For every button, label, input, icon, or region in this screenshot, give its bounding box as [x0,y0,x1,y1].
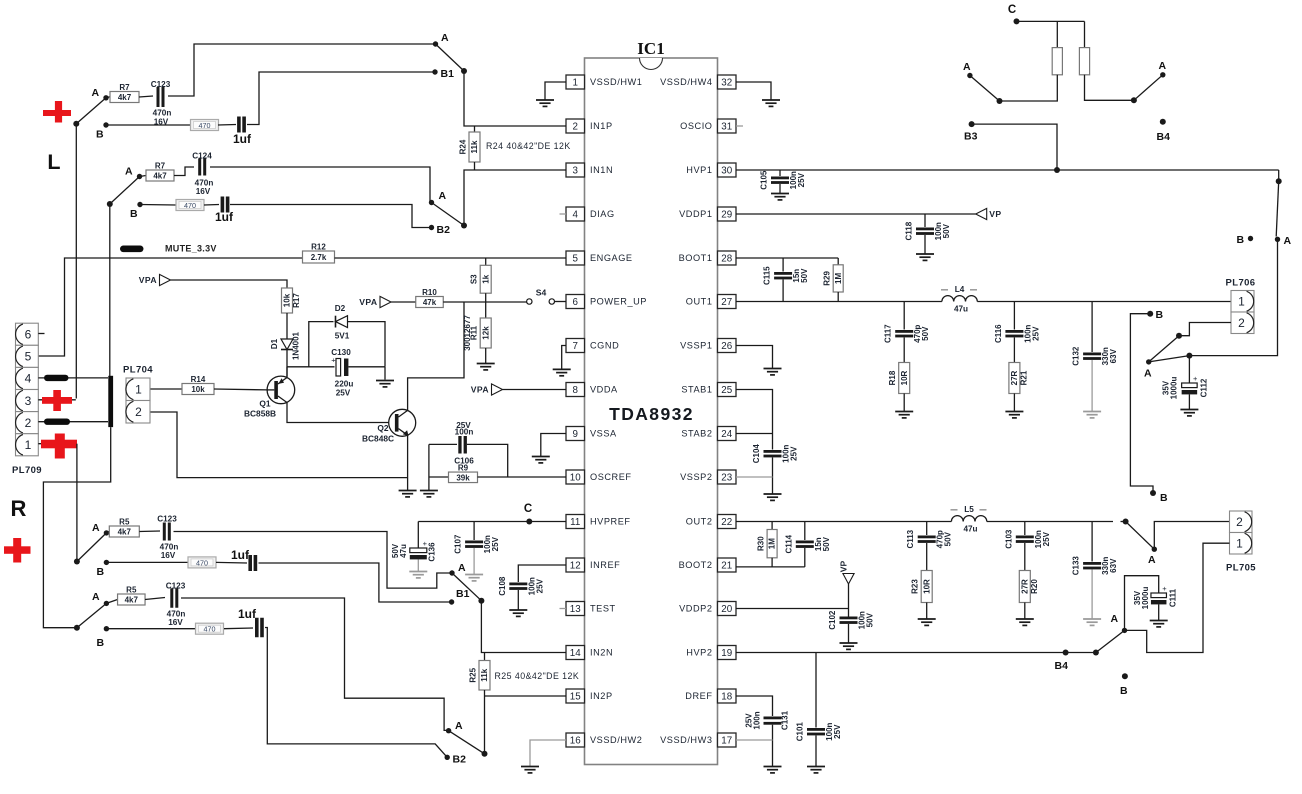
capacitor C112 1000u electrolytic [1188,356,1190,383]
svg-text:VPA: VPA [471,385,489,395]
pin 3 IN1N [566,163,585,177]
svg-text:B2: B2 [453,754,467,766]
svg-text:A: A [1159,60,1167,72]
pin 30 HVP1 [718,163,737,177]
resistor R11 12k [485,302,487,318]
pin 13 TEST [566,602,585,616]
svg-text:16V: 16V [161,551,176,560]
wire L2 pole down to shield bar [109,204,111,376]
op-amp IC1 TDA8932 body [585,58,718,765]
svg-text:VSSP1: VSSP1 [680,341,712,351]
capacitor C103 [1024,522,1026,536]
svg-text:A: A [92,87,100,99]
wire OUT2 net [736,521,951,523]
pin 4 stub [560,213,567,215]
svg-text:2.7k: 2.7k [311,253,327,262]
resistor R9 39k [429,476,449,478]
node B4 top [1160,119,1166,125]
svg-text:MUTE_3.3V: MUTE_3.3V [165,244,217,254]
svg-text:B1: B1 [441,68,455,80]
svg-text:R29: R29 [823,271,832,286]
svg-text:25V: 25V [491,536,500,551]
wire PL705 pin2 to A contact [1154,522,1231,550]
svg-text:7: 7 [573,341,578,352]
svg-text:47u: 47u [399,544,408,558]
red plus L input [43,110,71,116]
node A L2 [137,174,142,179]
switch SW-L2 pole [107,201,113,207]
wire PL709 pin1 to R net [38,443,77,445]
shield vertical bar [108,376,113,427]
switch SW2 IN1N [429,200,434,205]
VPA symbol 2 [380,296,391,307]
ground C111 [1158,604,1160,620]
capacitor C117 [903,302,905,330]
svg-text:6: 6 [25,327,32,341]
pin 19 HVP2 [718,646,737,660]
resistor R12 [303,251,335,263]
svg-text:47k: 47k [423,298,437,307]
node A OUT2 [1152,547,1157,552]
svg-text:B: B [1237,234,1245,246]
wire HVPREF net [418,521,566,523]
pin 4 DIAG [566,207,585,221]
switch top-right left [1000,75,1058,101]
svg-text:B4: B4 [1157,131,1171,143]
ground C106 left [428,477,430,490]
capacitor C136 47u electrolytic [417,522,419,549]
svg-text:R7: R7 [155,162,166,171]
svg-text:C105: C105 [760,170,769,190]
switch OUT2 A [1123,519,1129,525]
svg-text:S3: S3 [470,274,479,284]
svg-text:PL706: PL706 [1226,278,1256,289]
svg-text:L5: L5 [964,505,974,514]
node B R2 [104,626,109,631]
wire PL709 pin3 to L net [38,399,76,401]
svg-text:L: L [47,150,60,174]
svg-text:R24 40&42"DE 12K: R24 40&42"DE 12K [486,141,571,151]
wire pole to pin2 IN1P [464,71,566,126]
ground C104 [764,493,782,495]
svg-text:10R: 10R [922,579,931,594]
svg-text:VP: VP [989,209,1001,219]
resistor 470 L1 [106,124,191,126]
svg-text:17: 17 [721,735,732,746]
ground pin9 VSSA [541,434,566,457]
svg-text:C107: C107 [454,534,463,554]
svg-text:1M: 1M [768,538,777,549]
capacitor C123 [139,96,153,97]
svg-text:470: 470 [196,558,208,567]
svg-text:A: A [92,591,100,603]
svg-text:6: 6 [573,297,579,308]
pin 21 BOOT2 [718,558,737,572]
wire A down to C112 node [1189,239,1277,355]
resistor R5 [106,532,109,533]
wire OUT1 net [736,301,942,303]
wire STAB1 STAB2 [736,390,773,450]
svg-text:13: 13 [570,604,581,615]
svg-text:50V: 50V [866,612,875,627]
svg-text:25V: 25V [797,172,806,187]
svg-text:PL705: PL705 [1226,563,1256,574]
capacitor C113 [926,522,928,536]
VP symbol 2 [843,574,854,585]
wire B3 to HVP1 [972,124,1057,170]
svg-text:63V: 63V [1109,558,1118,573]
svg-text:2: 2 [1238,316,1245,330]
pin 5 ENGAGE [566,251,585,265]
svg-text:5: 5 [573,253,579,264]
svg-text:1N4001: 1N4001 [292,331,301,360]
svg-text:R30: R30 [757,536,766,551]
svg-text:4k7: 4k7 [118,93,132,102]
svg-text:1uf: 1uf [231,548,250,562]
pin 29 VDDP1 [718,207,737,221]
svg-text:C104: C104 [752,444,761,464]
switch SW1 IN1P [433,41,438,46]
diode D2 zener 5V1 [335,316,337,328]
resistor R5 second [106,600,117,604]
red plus pin3 [42,397,72,404]
svg-text:21: 21 [721,560,732,571]
svg-text:14: 14 [570,648,581,659]
svg-text:39k: 39k [456,474,470,483]
svg-text:2: 2 [573,121,578,132]
wire Q1 emitter up [286,367,288,378]
node B PL706 [1248,236,1253,241]
svg-text:VSSD/HW3: VSSD/HW3 [660,735,712,745]
svg-text:4k7: 4k7 [118,528,132,537]
switch HVP1 A [1278,170,1280,181]
wire 1uf to B1 (IN1P) [247,72,435,125]
capacitor C106 loop [429,443,457,445]
svg-text:Q2: Q2 [377,423,389,433]
svg-text:25: 25 [721,385,732,396]
wire shield bar down to R row2 pole [43,427,110,628]
connector PL709 [16,323,39,345]
pin 6 POWER_UP [566,295,585,309]
pin 17 VSSD/HW3 [718,733,737,747]
svg-text:R18: R18 [888,370,897,385]
wire node to C130 and D2 branch [287,366,335,368]
svg-text:50V: 50V [921,326,930,341]
wire A to C112 node [1149,356,1190,362]
node B4 on HVP2 [1063,650,1069,656]
svg-text:11: 11 [570,517,580,528]
capacitor C101 [815,653,817,728]
svg-text:VDDA: VDDA [590,385,618,395]
pin 31 OSCIO [718,119,737,133]
VPA symbol 1 [160,274,171,285]
svg-text:B2: B2 [437,224,451,236]
wire BOOT2 row [736,566,805,568]
capacitor C124 [174,167,194,176]
svg-text:4: 4 [25,372,32,386]
svg-text:C113: C113 [906,529,915,548]
transistor Q1 BC858B [267,376,295,404]
svg-text:OSCIO: OSCIO [680,121,712,131]
svg-text:30: 30 [721,165,732,176]
svg-text:18: 18 [721,691,732,702]
capacitor C131 [736,696,773,716]
pin 1 VSSD/HW1 [566,75,585,89]
svg-text:4: 4 [573,209,579,220]
svg-text:10k: 10k [283,293,292,307]
svg-text:1: 1 [573,77,578,88]
svg-text:10: 10 [570,472,581,483]
ground R21 [1013,394,1015,412]
capacitor 1uf R2 [224,627,253,630]
svg-text:R: R [11,496,27,521]
svg-text:VSSD/HW2: VSSD/HW2 [590,735,642,745]
svg-text:470: 470 [204,625,216,634]
wire OUT2 after L5 to pole [987,521,1113,523]
svg-text:B: B [97,566,105,578]
svg-text:19: 19 [721,648,732,659]
svg-text:2: 2 [1236,515,1243,529]
svg-text:HVPREF: HVPREF [590,517,631,527]
node B L1 [103,122,108,127]
svg-text:Q1: Q1 [259,399,271,409]
switch SW-R2 pole [74,625,80,631]
svg-text:D1: D1 [270,338,279,349]
svg-text:STAB2: STAB2 [681,429,712,439]
wire PL709 pin4 [38,377,108,379]
svg-text:470n: 470n [153,109,172,118]
red plus pin1 [41,440,77,449]
svg-text:A: A [1284,235,1292,247]
wire ENGAGE net [38,258,303,356]
svg-text:C102: C102 [828,610,837,630]
svg-text:25V: 25V [1042,531,1051,546]
ground C101 [815,736,817,767]
svg-text:20: 20 [721,604,732,615]
wire PL705 pin1 to HVP2 A node [1125,543,1230,652]
wire VDDP2 [736,608,849,610]
svg-text:CGND: CGND [590,341,619,351]
resistor R21 27R [1013,338,1015,363]
svg-text:1uf: 1uf [238,607,257,621]
svg-text:16: 16 [570,735,581,746]
ground C112 [1188,394,1190,409]
svg-text:R17: R17 [292,293,301,308]
transistor Q2 BC848C [389,409,416,436]
svg-text:5V1: 5V1 [335,332,350,341]
svg-text:1: 1 [1238,294,1245,308]
junction C112 [1186,353,1192,359]
wire VPA2 to R10 [391,301,416,303]
node B HVP2 [1122,673,1128,679]
svg-text:POWER_UP: POWER_UP [590,297,647,307]
svg-text:C124: C124 [192,152,212,161]
svg-text:A: A [1144,368,1152,380]
wire HVP2 net [736,652,1096,654]
svg-text:26: 26 [721,341,732,352]
svg-text:HVP1: HVP1 [686,165,712,175]
wire R10 to S4 [443,301,527,303]
wire PL709 pin1 down to R row1 pole [76,444,78,562]
svg-text:27R: 27R [1010,370,1019,385]
wire VPA3 to pin8 VDDA [503,389,567,391]
svg-text:VDDP2: VDDP2 [679,604,712,614]
wire C123 to switch A (IN1P) [168,44,436,96]
svg-text:C130: C130 [331,348,351,357]
ground C131 [764,766,782,768]
svg-text:1k: 1k [481,274,490,283]
svg-text:5: 5 [25,350,32,364]
svg-text:INREF: INREF [590,560,620,570]
ground C108 [517,590,519,610]
svg-text:OSCREF: OSCREF [590,472,632,482]
svg-text:25V: 25V [535,578,544,593]
junction B3-HVP1 [1054,167,1060,173]
svg-text:1uf: 1uf [215,210,234,224]
switch HVP2 pole [1093,650,1099,656]
wire Q1 collector to Q2 base [287,403,395,423]
svg-text:VSSD/HW1: VSSD/HW1 [590,77,642,87]
pin 12 INREF [566,558,585,572]
svg-text:50V: 50V [822,536,831,551]
svg-text:L4: L4 [955,285,965,294]
wire OUT1 after L4 to PL706 pin1 [977,301,1231,303]
ferrite bar pin4 [44,375,69,381]
wire PL709 pin2 [38,421,108,423]
svg-text:470: 470 [184,201,196,210]
ground C102 [848,624,850,643]
svg-text:R21: R21 [1019,370,1028,385]
svg-text:B: B [1160,492,1168,504]
switch top-right right [1085,75,1134,101]
capacitor C132 [1091,302,1093,353]
svg-text:25V: 25V [336,389,351,398]
svg-text:25V: 25V [1031,326,1040,341]
svg-text:A: A [441,32,449,44]
ground pin16 VSSD/HW2 [530,740,566,766]
svg-text:12k: 12k [481,326,490,340]
pin 18 DREF [718,689,737,703]
svg-text:32: 32 [721,77,732,88]
resistor jumper left [1056,21,1058,47]
wire PL706 pin2 switch [1179,323,1231,336]
svg-text:B: B [96,129,104,141]
svg-text:47u: 47u [954,305,968,314]
resistor R10 [416,297,444,308]
resistor R7 second [140,176,147,177]
svg-text:PL709: PL709 [12,465,42,476]
pin 13 stub [560,608,567,610]
svg-text:R10: R10 [422,288,437,297]
svg-text:3: 3 [573,165,579,176]
svg-text:31: 31 [721,121,732,132]
pin 27 OUT1 [718,295,737,309]
svg-text:C116: C116 [994,324,1003,343]
pin 10 OSCREF [566,470,585,484]
svg-text:C: C [524,503,532,515]
switch SW-R1 pole [74,559,80,565]
wire pole2 to pin3 IN1N [464,170,566,226]
inductor L5 [951,516,986,522]
capacitor C118 [924,214,926,227]
ground C136 [417,560,419,572]
svg-text:VSSD/HW4: VSSD/HW4 [660,77,712,87]
svg-text:VSSA: VSSA [590,429,617,439]
resistor R17 [282,288,293,313]
svg-text:A: A [1111,613,1119,625]
pin 24 STAB2 [718,427,737,441]
capacitor 1uf R1 [216,561,247,564]
resistor R25 [484,653,486,661]
svg-text:IC1: IC1 [637,39,664,58]
svg-text:VPA: VPA [139,275,157,285]
pin 14 IN2N [566,646,585,660]
svg-text:OUT2: OUT2 [686,517,713,527]
svg-text:1M: 1M [834,273,843,284]
svg-text:IN1N: IN1N [590,165,613,175]
svg-text:B: B [130,208,138,220]
svg-text:D2: D2 [335,304,346,313]
svg-text:R25 40&42"DE 12K: R25 40&42"DE 12K [495,671,580,681]
svg-text:11k: 11k [470,140,479,153]
pin 7 CGND [566,339,585,353]
pin 20 VDDP2 [718,602,737,616]
red plus R input [4,546,31,554]
switch SW4 IN2P [484,696,486,754]
node A PL706 [1146,359,1151,364]
svg-text:HVP2: HVP2 [686,648,712,658]
ground R23 [926,603,928,619]
svg-text:VSSP2: VSSP2 [680,472,712,482]
svg-text:C123: C123 [151,80,171,89]
svg-text:1: 1 [1236,536,1243,550]
svg-text:B: B [1120,685,1128,697]
svg-text:C118: C118 [905,221,914,240]
pin 9 VSSA [566,427,585,441]
svg-text:IN2P: IN2P [590,691,613,701]
wire Q2 collector to POWER_UP [408,302,464,411]
svg-text:50V: 50V [942,223,951,238]
diode D1 1N4001 [286,313,288,339]
pin 23 VSSP2 [718,470,737,484]
svg-text:R7: R7 [119,83,130,92]
capacitor C115 [782,258,784,272]
connector PL705 [1230,511,1253,533]
svg-text:R5: R5 [126,586,137,595]
svg-text:S4: S4 [536,288,547,298]
wire BOOT1 row [736,257,838,259]
VP symbol 1 [976,208,987,219]
ground pin1 [545,82,566,100]
svg-text:C114: C114 [784,534,793,553]
svg-text:BC858B: BC858B [244,409,276,419]
svg-text:10R: 10R [900,370,909,385]
ground C133 [1091,570,1093,619]
wire D2 to C130 right [348,322,386,367]
capacitor C105 [779,170,781,176]
svg-text:22: 22 [721,517,732,528]
wire VDDP1 to VP [736,213,976,215]
svg-text:C108: C108 [498,576,507,596]
ground R20 [1024,603,1026,619]
wire IN2P row [485,695,567,697]
svg-text:R5: R5 [119,518,130,527]
svg-text:IN2N: IN2N [590,648,613,658]
svg-text:27R: 27R [1020,579,1029,594]
svg-text:50V: 50V [944,531,953,546]
node A L1 [103,95,108,100]
svg-text:47u: 47u [963,525,977,534]
